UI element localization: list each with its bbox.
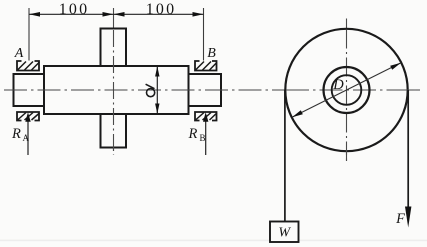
bearing B lower block <box>195 112 217 121</box>
main horizontal centerline <box>4 89 420 91</box>
pulley bore circle <box>332 75 362 105</box>
reaction arrow RB <box>203 112 208 155</box>
pulley diameter dimension D <box>292 63 401 117</box>
force line F <box>405 90 411 228</box>
svg-text:D: D <box>332 77 344 93</box>
shaft centerline redraw over rects <box>4 89 230 91</box>
svg-text:100: 100 <box>146 1 177 18</box>
label d (rotated letter drawn as path) <box>146 84 155 97</box>
faint scan band at bottom <box>0 240 427 242</box>
hub centerline redraw over rects <box>113 30 115 155</box>
svg-text:B: B <box>200 133 206 143</box>
svg-text:A: A <box>23 133 30 143</box>
reaction arrow RA <box>25 112 30 155</box>
svg-text:R: R <box>188 126 198 142</box>
extension line over bearing A <box>28 8 30 61</box>
dimension line 100 (left span) <box>29 12 114 17</box>
shaft right journal <box>189 74 222 106</box>
shaft left journal <box>14 74 45 106</box>
dimension d (shaft diameter) <box>155 66 159 113</box>
pulley outer circle <box>285 29 407 151</box>
bearing B upper block <box>195 61 217 71</box>
svg-text:F: F <box>395 211 405 227</box>
rope left (to weight W) <box>284 90 286 221</box>
svg-text:100: 100 <box>59 1 90 18</box>
bearing A lower block <box>17 112 40 121</box>
svg-text:W: W <box>278 225 291 240</box>
svg-text:R: R <box>11 126 21 142</box>
pulley centerlines over circle fill <box>286 30 420 162</box>
svg-text:A: A <box>14 46 24 61</box>
pulley vertical centerline <box>346 19 348 162</box>
hub top rectangle <box>101 29 127 67</box>
extension line over bearing B <box>203 8 205 61</box>
bearing A upper block <box>17 61 40 71</box>
shaft body <box>44 66 189 114</box>
svg-text:B: B <box>207 46 216 61</box>
dimension line 100 (right span) <box>114 12 204 17</box>
hub vertical centerline / middle extension line <box>113 8 115 155</box>
pulley hub circle <box>324 67 370 113</box>
weight box W <box>270 222 299 243</box>
hub bottom rectangle <box>101 114 127 148</box>
